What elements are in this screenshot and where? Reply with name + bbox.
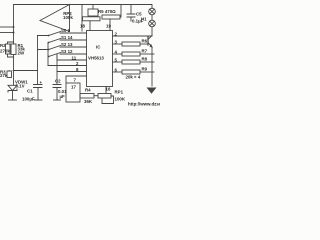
capacitor C2: [53, 85, 61, 88]
svg-text:C2: C2: [55, 79, 61, 84]
wire C1 to ground: [37, 88, 39, 101]
potentiometer RP1 box: [98, 94, 111, 99]
svg-text:S2 13: S2 13: [61, 42, 73, 47]
wire junction row: [14, 70, 38, 72]
wire R5 right to rail: [120, 5, 121, 18]
wire pin2 right: [113, 35, 153, 36]
svg-text:2W: 2W: [18, 50, 25, 55]
svg-text:16: 16: [106, 87, 111, 92]
svg-text:100k: 100k: [63, 15, 73, 20]
wire R2 bottom: [8, 54, 14, 57]
svg-text:27k: 27k: [0, 73, 8, 78]
node junction dot: [13, 70, 15, 72]
resistor box pin18: [83, 17, 101, 21]
svg-text:http://www.dzsc: http://www.dzsc: [128, 102, 160, 107]
svg-text:270k: 270k: [0, 49, 10, 54]
node B dot: [13, 32, 15, 34]
node S1 contact: [48, 42, 50, 44]
wire bus1 down: [37, 36, 39, 85]
svg-text:R7: R7: [142, 49, 148, 54]
wire lamp to transistor: [151, 27, 153, 35]
resistor R5 box: [102, 15, 120, 19]
wire RP1 wiper loop: [102, 96, 114, 104]
svg-text:S0 9: S0 9: [61, 28, 71, 33]
ground W1: [9, 99, 17, 101]
svg-text:R6: R6: [142, 39, 148, 44]
resistor R2 box: [6, 44, 11, 54]
wire pin11: [57, 54, 87, 60]
svg-text:19: 19: [106, 24, 111, 29]
wire R2 top: [8, 42, 14, 44]
wire R9 right: [140, 71, 154, 73]
svg-text:17: 17: [71, 85, 76, 90]
wire R4 to RP1: [94, 95, 98, 97]
svg-text:S1 14: S1 14: [61, 35, 73, 40]
svg-text:36K: 36K: [84, 99, 93, 104]
svg-text:R4: R4: [85, 88, 91, 93]
ground C1: [34, 99, 42, 101]
wire R7 right: [140, 53, 154, 55]
wire pin4: [113, 53, 123, 55]
wire R8 right: [140, 61, 154, 63]
node S3 contact: [48, 56, 50, 58]
switch bus S0-S2: [38, 36, 49, 50]
wire input terminal B: [0, 32, 14, 34]
switch S1: [49, 39, 87, 43]
svg-text:S3 12: S3 12: [61, 49, 73, 54]
svg-text:R9: R9: [142, 67, 148, 72]
svg-text:18: 18: [80, 24, 85, 29]
switch S3: [49, 53, 87, 57]
zener diode W1: [8, 85, 17, 92]
resistor R1 box: [11, 44, 16, 55]
wire C5 stub: [130, 5, 132, 22]
svg-text:100µF: 100µF: [22, 97, 35, 102]
wire top rail: [14, 5, 153, 9]
wire R3 stub: [8, 70, 10, 73]
node A dot: [13, 26, 15, 28]
svg-text:VH5613: VH5613: [88, 56, 104, 61]
svg-text:R5 470Ω: R5 470Ω: [98, 9, 116, 14]
svg-text:C1: C1: [27, 89, 33, 94]
op-amp U1 triangle: [40, 5, 70, 32]
svg-text:5.1V: 5.1V: [16, 83, 25, 88]
svg-text:H1: H1: [141, 17, 147, 22]
wire input terminal A: [0, 26, 14, 28]
switch bus S1-S3: [47, 43, 49, 66]
wire zener to ground: [12, 91, 14, 101]
switch S2: [49, 46, 87, 50]
switch S0: [49, 32, 87, 36]
wire left bus: [13, 5, 15, 45]
resistor R9 box: [122, 70, 140, 74]
wire pin2 left: [48, 65, 87, 67]
svg-text:R8: R8: [142, 57, 148, 62]
wire C2 top: [56, 54, 58, 85]
ground C2: [54, 99, 61, 101]
wire pin19 into IC: [109, 19, 111, 31]
resistor R7 box: [122, 52, 140, 56]
svg-text:µF: µF: [60, 94, 66, 99]
svg-text:RP1: RP1: [115, 90, 124, 95]
wire emitter rail: [151, 47, 153, 86]
IC U2 box: [87, 31, 113, 87]
resistor R8 box: [122, 60, 140, 64]
wire R6 to base: [140, 43, 148, 45]
wire pin18 into IC: [89, 21, 91, 31]
wire RP2 drop: [81, 5, 83, 32]
svg-text:20k × 4: 20k × 4: [126, 75, 141, 80]
node S2 contact: [48, 49, 50, 51]
potentiometer RP2 box: [88, 9, 98, 16]
wire RP2 top stub: [92, 5, 94, 10]
wire lamps link: [151, 15, 153, 20]
lamp H1b: [149, 20, 156, 27]
wire pin5: [113, 61, 123, 63]
wire pin3: [113, 43, 123, 45]
wire pin8: [57, 71, 87, 73]
resistor R6 box: [122, 42, 140, 46]
resistor R3 box: [7, 71, 12, 78]
wire pin16: [105, 87, 107, 94]
transistor V1: [147, 37, 149, 45]
wire left bus lower: [13, 55, 15, 86]
wire pin6: [113, 71, 123, 73]
resistor R4 box: [80, 94, 94, 99]
wire C2 to ground: [56, 88, 58, 101]
ground chassis triangle: [147, 88, 157, 94]
capacitor C1: [34, 85, 43, 88]
svg-text:100K: 100K: [115, 97, 126, 102]
lamp H1a: [149, 8, 156, 15]
svg-text:+: +: [40, 80, 43, 85]
svg-text:R2: R2: [0, 43, 6, 48]
wire pin7: [66, 75, 87, 77]
svg-text:11: 11: [72, 55, 77, 60]
node S0 contact: [48, 35, 50, 37]
capacitor C5: [127, 14, 135, 17]
component box bottom-mid: [65, 76, 67, 83]
